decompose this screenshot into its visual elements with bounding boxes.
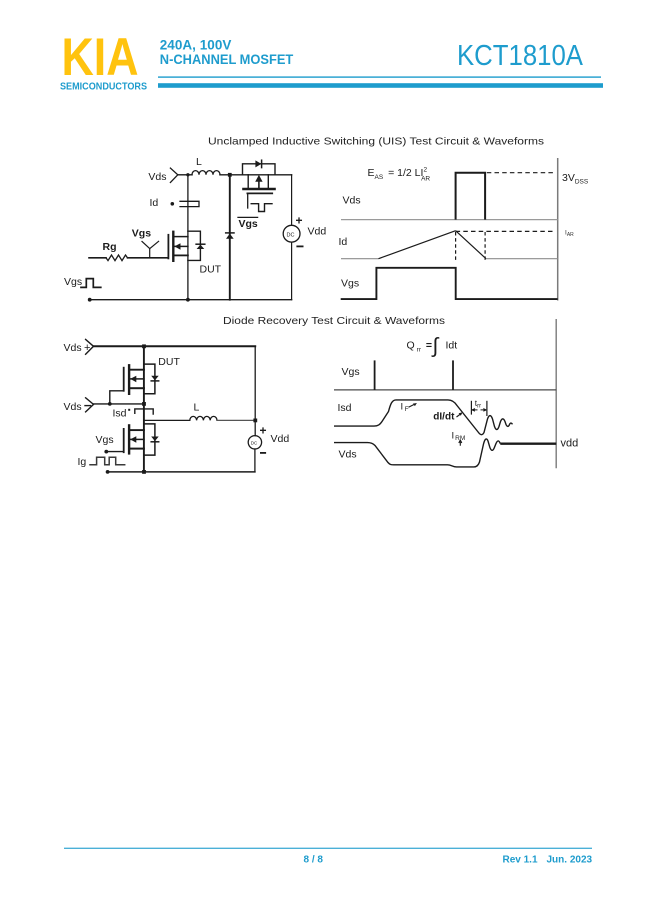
transistor clamp arrow [258,180,260,188]
wire gate input left [89,257,106,259]
arrow IRM [459,440,462,446]
dashed IAR level [456,230,555,232]
node gate dot 2 [104,450,108,454]
arrow trr left [472,409,478,412]
label Vgs-bar overline [238,216,258,218]
wire inductor left 2 [144,419,190,421]
trace Vgs line wave2 [334,389,556,391]
transistor clamp right lead [267,175,269,188]
diode upper body triangle [151,376,159,381]
header thin rule [158,76,601,77]
svg-text:Rev 1.1: Rev 1.1 [503,855,538,866]
svg-text:Vgs: Vgs [96,434,114,446]
node rail sense junction [142,402,146,406]
wire Vdd branch bottom [291,242,293,300]
trace Vgs pulse wave1 [341,268,558,299]
tick Vgs rise [374,360,376,390]
node Id dot [171,202,175,206]
svg-text:IRM: IRM [452,430,466,442]
probe Y Vgs 1 [142,241,159,257]
source Vdd circle 2 [248,436,261,449]
wire main drain rail [143,346,145,472]
axis waveform 1 [557,158,559,301]
wire Vds- sense [94,403,144,405]
arrow trr right [481,409,487,412]
axis waveform 2 [555,319,557,468]
wire gate input right [128,257,168,259]
source Vgs pulse symbol [81,279,101,288]
svg-text:Qrr =: Qrr = [407,340,433,354]
dashed vertical peak [455,232,457,260]
diode upper body cathode bar [151,380,159,382]
svg-text:Vds: Vds [339,449,357,461]
svg-text:DUT: DUT [158,356,180,368]
transistor upper body arrow [130,376,136,383]
probe chevron Vds 1 [170,168,177,182]
svg-text:L: L [194,402,200,414]
diode top triangle [255,160,261,167]
svg-text:Ig: Ig [78,456,87,468]
transistor upper channel bar [128,365,130,394]
trace Vds pulse [456,173,486,220]
diode DUT body cathode bar [196,243,205,245]
wire bottom rail 1 [90,299,292,301]
trace vdd level thick [500,443,556,445]
transistor DUT body tap [174,245,188,247]
dashed 3VDSS level [487,172,555,174]
svg-text:8 / 8: 8 / 8 [304,855,324,866]
svg-text:L: L [196,156,202,168]
transistor lower drain tap [130,429,144,431]
svg-text:Vds: Vds [343,195,361,207]
wire DUT body diode loop [188,231,201,260]
svg-text:Vdd: Vdd [308,225,327,237]
transistor DUT source tap [174,254,188,256]
svg-text:Isd: Isd [113,408,127,420]
wire Vdd to bottom 2 [254,449,256,472]
svg-text:Isd: Isd [338,402,352,414]
probe chevron Vds+ [86,339,94,354]
svg-text:Vds: Vds [64,401,82,413]
wire Vdd branch top [291,175,293,226]
transistor upper body tap [130,378,144,380]
transistor clamp left lead [247,175,249,188]
svg-text:SEMICONDUCTORS: SEMICONDUCTORS [60,82,147,93]
trace Id ramp down [456,231,486,259]
arrow IF [409,404,415,407]
svg-text:Unclamped Inductive Switching: Unclamped Inductive Switching (UIS) Test… [208,136,544,148]
node inductor rail junction [253,419,257,423]
transistor DUT body arrow [174,243,180,250]
trace Id ramp up [379,231,456,259]
transistor lower gate bar [123,429,125,452]
inductor L2 [190,416,217,420]
wire top left [178,174,192,176]
source Ig double pulse symbol [90,457,125,465]
probe chevron Vds- [86,398,94,412]
transistor lower body arrow [130,436,136,443]
wire clamp gate stem [247,193,249,208]
transistor lower source tap [130,448,144,450]
current probe Isd staple [135,409,153,414]
wire clamp rail vertical [229,175,231,300]
svg-text:DUT: DUT [200,264,222,276]
diode DUT body triangle [197,245,205,249]
diode clamp triangle [226,234,234,239]
wire upper gate return [110,391,124,404]
svg-text:DC: DC [287,233,295,239]
svg-text:Vgs: Vgs [64,276,82,288]
header thick rule [158,83,603,88]
current probe Id [180,201,199,206]
transistor DUT gate bar [167,235,169,259]
transistor upper drain tap [130,369,144,371]
svg-text:IF: IF [401,401,409,413]
node bottom left dot 2 [106,470,110,474]
transistor upper source tap [130,387,144,389]
svg-text:Vgs: Vgs [342,366,360,378]
transistor upper gate bar [123,368,125,391]
wire clamp mosfet loop [243,164,276,175]
node bottom rail junction 2 [142,470,146,474]
svg-text:Vgs: Vgs [132,227,151,239]
node gate return dot [108,402,112,406]
diode clamp cathode bar [226,232,234,234]
svg-text:Vgs: Vgs [239,218,258,230]
svg-text:Id: Id [339,236,348,248]
footer rule [64,848,592,849]
node top rail junction [142,344,146,348]
wire bottom rail 2 [108,471,255,473]
label minus 2 [261,452,265,454]
svg-text:∫: ∫ [432,335,440,358]
svg-text:+: + [296,214,303,228]
svg-text:Rg: Rg [103,241,117,253]
wire gate lead 2 [106,451,123,453]
svg-text:240A,: 240A, [160,38,196,53]
transistor DUT channel bar [172,232,174,261]
trace Id flat left [341,258,379,260]
trace Isd [334,400,513,435]
svg-text:dI/dt: dI/dt [433,412,455,423]
trace Id flat right [486,258,558,260]
svg-text:Vdd: Vdd [271,433,290,445]
svg-text:Diode Recovery Test Circuit &: Diode Recovery Test Circuit & Waveforms [223,315,445,327]
resistor Rg [106,255,128,261]
wire top middle [220,174,292,176]
tick Vgs fall [452,360,454,390]
node bottom source dot [186,298,190,302]
tick trr right [486,401,488,416]
svg-text:Vgs: Vgs [341,278,359,290]
svg-text:DC: DC [251,441,258,446]
transistor lower channel bar [128,425,130,453]
svg-text:+: + [260,423,267,437]
arrow dI/dt [457,414,461,417]
wire drain sense vertical [187,175,189,300]
svg-text:Id: Id [150,197,159,209]
svg-text:KCT1810A: KCT1810A [457,40,583,72]
gate drive inverted pulse symbol [251,204,272,212]
dashed vertical fall [484,232,486,260]
transistor DUT drain tap [174,236,188,238]
diode lower body triangle [151,437,159,442]
transistor clamp gate bar [247,192,272,194]
node top-left junction [186,173,189,176]
svg-text:3VDSS: 3VDSS [562,172,589,186]
svg-text:vdd: vdd [561,437,579,449]
tick trr left [470,401,472,415]
wire top rail 2 [94,345,256,347]
svg-text:Idt: Idt [446,340,458,352]
label minus 1 [297,245,302,247]
inductor L1 [192,171,220,175]
svg-text:N-CHANNEL MOSFET: N-CHANNEL MOSFET [160,52,294,67]
svg-text:KIA: KIA [62,28,139,87]
label Isd star [128,409,130,411]
wire right rail down [254,346,256,435]
svg-text:Vds: Vds [64,342,82,354]
diode lower body cathode bar [151,441,159,443]
svg-text:IAR: IAR [565,230,574,239]
diode top cathode bar [261,160,263,167]
label minus sign probe [85,405,91,407]
transistor lower body tap [130,438,144,440]
svg-text:Vds: Vds [148,171,166,183]
source Vdd circle [283,225,300,242]
node clamp rail junction [228,173,232,177]
svg-text:100V: 100V [200,38,232,53]
node bottom left dot [88,298,92,302]
wire inductor right 2 [217,419,255,421]
svg-text:Jun. 2023: Jun. 2023 [547,855,593,866]
wire lower diode loop [144,424,155,455]
trace Vds wave2 [334,439,500,467]
svg-text:EAS = 1/2 LI2AR: EAS = 1/2 LI2AR [368,167,431,183]
svg-text:trr: trr [475,398,481,410]
trace Vds baseline [341,219,558,221]
wire upper diode loop [144,364,155,394]
transistor clamp channel bar [243,188,274,190]
